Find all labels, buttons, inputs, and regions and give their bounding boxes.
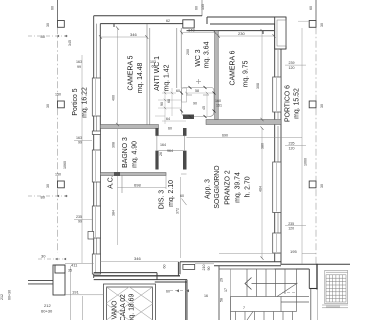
chimney bump on top wall — [183, 20, 194, 28]
axis marker left mid — [28, 195, 70, 200]
svg-text:150: 150 — [55, 93, 61, 97]
svg-text:308: 308 — [256, 83, 260, 89]
svg-text:384: 384 — [112, 210, 116, 216]
bagno east wall (door bars) — [155, 128, 186, 170]
svg-text:45: 45 — [202, 106, 206, 110]
svg-text:80: 80 — [41, 34, 46, 39]
svg-text:29: 29 — [220, 278, 224, 282]
svg-text:160: 160 — [215, 99, 221, 103]
svg-text:60: 60 — [163, 265, 167, 269]
svg-text:Portico 5: Portico 5 — [72, 88, 79, 115]
svg-text:1060: 1060 — [63, 161, 67, 169]
svg-text:235: 235 — [288, 222, 294, 226]
svg-text:120: 120 — [289, 146, 295, 150]
svg-text:60: 60 — [180, 194, 184, 198]
svg-text:17: 17 — [224, 288, 228, 292]
svg-text:62: 62 — [166, 19, 170, 23]
svg-text:60: 60 — [195, 6, 199, 10]
top axis line and labels — [201, 0, 203, 16]
partition camera5 / bagno — [100, 125, 158, 129]
svg-text:212: 212 — [0, 294, 4, 300]
svg-text:400: 400 — [112, 95, 116, 101]
svg-text:372: 372 — [176, 208, 180, 214]
A.C. closet line — [121, 176, 123, 194]
svg-text:26: 26 — [159, 152, 163, 156]
pillar L1 — [58, 21, 65, 28]
svg-text:30: 30 — [46, 104, 50, 108]
dis3 door swing diagonal — [182, 199, 187, 206]
svg-text:30: 30 — [320, 104, 324, 108]
stairwell hatch — [107, 287, 153, 320]
svg-text:239: 239 — [289, 61, 295, 65]
svg-text:964: 964 — [167, 149, 173, 153]
svg-text:64: 64 — [166, 117, 170, 121]
svg-text:120: 120 — [289, 66, 295, 70]
svg-text:App. 3: App. 3 — [204, 179, 211, 199]
svg-text:30: 30 — [46, 23, 50, 27]
svg-text:346: 346 — [134, 256, 141, 261]
partition bagno-ac / dis3 (horizontal) — [100, 173, 166, 176]
svg-text:58: 58 — [220, 298, 224, 302]
stair arrow — [245, 278, 252, 290]
svg-text:60: 60 — [168, 127, 172, 131]
svg-text:h. 2.70: h. 2.70 — [244, 176, 251, 197]
svg-text:90: 90 — [207, 267, 211, 271]
svg-text:60+30: 60+30 — [8, 290, 12, 300]
svg-text:SOGGIORNO: SOGGIORNO — [214, 165, 221, 209]
axis marker left top — [28, 34, 70, 39]
svg-text:210: 210 — [202, 265, 206, 271]
svg-text:mq. 18.69: mq. 18.69 — [128, 294, 135, 320]
svg-text:30: 30 — [46, 184, 50, 188]
svg-text:150: 150 — [55, 173, 61, 177]
svg-text:90: 90 — [160, 102, 164, 106]
svg-text:mq. 16.22: mq. 16.22 — [81, 87, 88, 118]
svg-text:mq. 2.10: mq. 2.10 — [168, 180, 175, 207]
svg-text:308: 308 — [112, 142, 116, 148]
svg-text:ANTI WC 1: ANTI WC 1 — [154, 56, 161, 91]
svg-text:mq. 4.90: mq. 4.90 — [131, 141, 138, 168]
svg-text:30: 30 — [320, 23, 324, 27]
svg-text:68: 68 — [167, 99, 171, 103]
svg-text:CAMERA 5: CAMERA 5 — [127, 55, 134, 90]
pillar R3 — [309, 181, 316, 188]
svg-text:90: 90 — [193, 102, 197, 106]
svg-text:PRANZO 2: PRANZO 2 — [224, 170, 231, 205]
svg-text:345: 345 — [68, 40, 72, 46]
svg-text:140: 140 — [188, 27, 195, 32]
pillar R2 — [309, 101, 316, 108]
dim ticks — [99, 26, 276, 259]
left wall buttress — [88, 232, 94, 240]
right wall masonry segments — [273, 77, 281, 253]
left wall window glass lines — [95, 24, 97, 254]
svg-text:380: 380 — [261, 143, 265, 149]
svg-text:200: 200 — [186, 49, 190, 55]
svg-text:7: 7 — [243, 306, 245, 310]
svg-text:60: 60 — [51, 6, 55, 10]
svg-text:346: 346 — [130, 32, 137, 37]
partition antiwc / wc3 — [177, 28, 181, 88]
svg-text:230: 230 — [238, 31, 245, 36]
pillar L2 — [58, 101, 65, 108]
svg-text:mq. 14.48: mq. 14.48 — [137, 63, 144, 94]
knot dimension clutter — [155, 88, 214, 124]
svg-text:191: 191 — [72, 290, 79, 295]
svg-text:161: 161 — [216, 104, 222, 108]
svg-text:99: 99 — [78, 141, 82, 145]
svg-text:80: 80 — [41, 195, 46, 200]
right wall top corner outlined masonry — [275, 17, 286, 49]
svg-text:16: 16 — [204, 294, 208, 298]
svg-text:60+30: 60+30 — [41, 309, 53, 314]
svg-text:235: 235 — [289, 142, 295, 146]
svg-text:A.C.: A.C. — [107, 175, 114, 188]
svg-text:30: 30 — [41, 254, 46, 259]
svg-text:164: 164 — [160, 143, 166, 147]
svg-text:PORTICO 6: PORTICO 6 — [284, 85, 291, 122]
column axis left dash-dot — [57, 0, 59, 21]
axis marker bottom-left — [38, 254, 66, 261]
svg-text:60: 60 — [166, 290, 170, 294]
svg-text:SCALA 02: SCALA 02 — [120, 294, 127, 320]
partition camera6 / soggiorno — [206, 120, 281, 125]
svg-text:CAMERA 6: CAMERA 6 — [229, 50, 236, 85]
svg-text:120: 120 — [288, 227, 294, 231]
svg-text:mq. 39.74: mq. 39.74 — [234, 172, 241, 203]
svg-text:411: 411 — [71, 263, 78, 268]
right wall window glass lines — [277, 50, 279, 233]
partition camera5 / antiwc — [147, 24, 150, 125]
pillar R1 — [309, 21, 316, 28]
stair left wall line — [218, 266, 220, 320]
svg-text:mq. 1.42: mq. 1.42 — [163, 64, 170, 91]
svg-text:698: 698 — [134, 182, 141, 187]
svg-text:163: 163 — [76, 60, 82, 64]
svg-text:WC 3: WC 3 — [195, 49, 202, 66]
svg-text:135: 135 — [201, 4, 205, 10]
svg-text:163: 163 — [76, 136, 82, 140]
knot perimeter ticks — [180, 86, 216, 118]
svg-text:212: 212 — [44, 303, 51, 308]
svg-text:99: 99 — [77, 65, 81, 69]
door swing dashes stair entry — [170, 290, 190, 292]
door leaf — [183, 264, 195, 269]
svg-text:35: 35 — [68, 269, 72, 273]
svg-text:60: 60 — [176, 89, 180, 93]
svg-text:mq. 3.64: mq. 3.64 — [203, 41, 210, 68]
svg-text:404: 404 — [259, 186, 263, 192]
svg-text:mq. 9.75: mq. 9.75 — [242, 60, 249, 87]
svg-text:30: 30 — [320, 184, 324, 188]
svg-text:1060: 1060 — [304, 158, 308, 166]
pillar L3 — [58, 181, 65, 188]
svg-text:690: 690 — [222, 134, 228, 138]
svg-text:DIS. 3: DIS. 3 — [158, 190, 165, 209]
svg-text:60: 60 — [309, 6, 313, 10]
left wall masonry segments — [92, 78, 100, 274]
svg-text:235: 235 — [76, 215, 82, 219]
svg-text:VANO: VANO — [111, 300, 118, 320]
svg-text:mq. 15.52: mq. 15.52 — [293, 88, 300, 119]
svg-text:195: 195 — [290, 249, 297, 254]
svg-text:58: 58 — [195, 89, 199, 93]
dis3 east dim line — [180, 177, 182, 258]
partition wc3 / camera6 — [215, 31, 219, 120]
svg-text:99: 99 — [78, 220, 82, 224]
column axis right dash-dot — [315, 0, 317, 21]
svg-text:BAGNO 3: BAGNO 3 — [122, 137, 129, 168]
stair hall U channel walls — [308, 269, 310, 289]
